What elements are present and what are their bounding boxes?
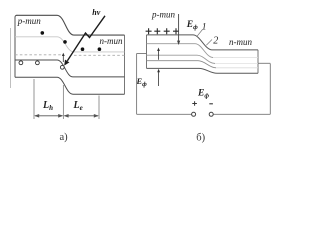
hole circle p-side 1 — [19, 61, 23, 65]
svg-text:р-тип: р-тип — [151, 10, 175, 20]
wire left edge of b — [146, 35, 148, 69]
hole circle junction — [60, 65, 64, 69]
node conduction band bottom light line — [15, 37, 125, 52]
label minus terminal — [209, 103, 213, 105]
wire left vertical — [136, 54, 138, 115]
svg-text:n-тип: n-тип — [100, 36, 123, 46]
svg-text:Le: Le — [73, 100, 83, 112]
wire left stub — [137, 53, 147, 55]
node Fermi level dashed p-side — [15, 54, 61, 56]
node valence band top line — [15, 60, 125, 77]
hole circle p-side 2 — [36, 61, 40, 65]
wire left edge of a — [15, 15, 17, 77]
wire right vertical — [269, 64, 271, 115]
node b conduction bottom line 2 — [147, 44, 214, 58]
scan artifact line x=10 — [10, 28, 12, 88]
node valence band bottom line — [15, 77, 125, 94]
svg-text:р-тип: р-тип — [17, 16, 41, 26]
wire right stub — [258, 62, 270, 64]
wire right edge of b — [257, 50, 259, 73]
svg-text:Eф: Eф — [136, 76, 148, 88]
wire extension line left — [33, 79, 35, 119]
electron dot n-side 1 — [81, 47, 85, 51]
wire right edge of a — [124, 35, 126, 94]
arrow E-phi below band — [158, 71, 160, 86]
wire extension line right — [98, 96, 100, 120]
electron dot p-side — [41, 31, 45, 35]
electron dot n-side 2 — [98, 47, 102, 51]
svg-text:2: 2 — [213, 35, 218, 46]
arrow E-phi top — [178, 14, 180, 42]
electron dot junction — [63, 40, 67, 44]
wire bottom right segment — [213, 113, 270, 115]
label plus terminal — [192, 101, 197, 106]
svg-text:б): б) — [196, 133, 205, 144]
node b valence bottom line — [147, 68, 259, 73]
node b Fermi line — [147, 55, 216, 63]
svg-text:Eф: Eф — [186, 20, 198, 31]
svg-text:n-тип: n-тип — [229, 37, 252, 47]
plus charge row — [146, 28, 179, 34]
svg-text:Eф: Eф — [197, 89, 209, 100]
svg-text:1: 1 — [202, 22, 207, 32]
terminal circle right — [209, 112, 213, 116]
wire extension line center — [62, 85, 64, 119]
dimension arrow Le — [64, 115, 98, 117]
terminal circle left — [192, 112, 196, 116]
node Fermi level dashed n-side — [74, 54, 125, 56]
photon arrow zigzag — [67, 16, 105, 61]
node b conduction top line 1 — [147, 35, 259, 50]
node b valence top line — [147, 61, 217, 68]
wire bottom left segment — [137, 113, 192, 115]
dimension arrow Lh — [35, 115, 62, 117]
arrow generation (electron excitation) — [62, 55, 64, 62]
node conduction band top line — [17, 15, 125, 35]
arrow E-phi inside band — [158, 50, 160, 60]
svg-text:hν: hν — [92, 8, 100, 17]
svg-text:Lh: Lh — [42, 100, 53, 112]
svg-text:а): а) — [60, 132, 69, 143]
